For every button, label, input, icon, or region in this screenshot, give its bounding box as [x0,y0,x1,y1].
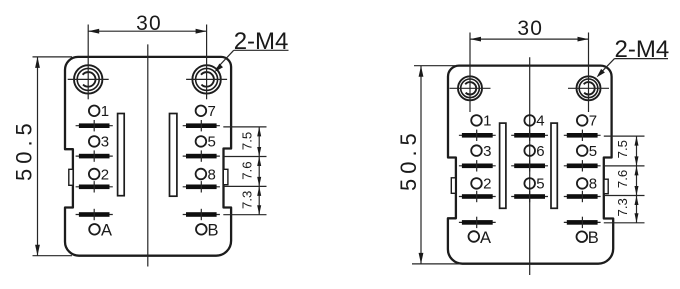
terminal bar B-C3-1 [564,130,601,141]
terminal circle A (letter) [89,222,112,240]
terminal bar B-C1-2 [459,160,496,171]
svg-text:30: 30 [517,17,543,40]
svg-text:7: 7 [589,113,597,130]
svg-text:7.5: 7.5 [240,132,255,150]
body outline B [448,66,613,264]
terminal circle 5 B-right [577,143,597,160]
terminal bar B-C3-3 [564,191,601,202]
terminal bar B-C2-2 [511,160,548,171]
terminal circle 8 B [577,176,597,193]
terminal bar A-L4 [76,209,113,220]
svg-text:5: 5 [208,134,216,151]
mounting hole A-right [186,25,227,100]
svg-text:B: B [208,222,219,240]
slot rectangle B1 [500,123,506,208]
terminal bar A-L3 [76,181,113,192]
terminal bar A-R2 [183,150,220,161]
pitch chain dims B (7.5/7.6/7.3) [604,136,645,223]
mounting hole A-left [68,25,109,100]
left clip A [69,169,73,185]
terminal circle 3 A [89,134,109,151]
terminal circle 1 B [471,113,491,130]
terminal bar A-R3 [183,181,220,192]
svg-text:7.5: 7.5 [615,140,630,158]
terminal circle 7 A [196,103,216,120]
terminal circle 5 A [196,134,216,151]
label 2-M4 A with leader [215,28,289,72]
mounting hole B-right [568,33,609,113]
svg-text:2: 2 [483,176,491,193]
terminal circle 2 A [89,166,109,183]
dimension 50.5 A [12,57,73,256]
svg-text:6: 6 [536,143,544,160]
svg-text:8: 8 [208,166,216,183]
svg-text:A: A [101,222,112,240]
label 2-M4 B with leader [597,36,670,77]
terminal circle 5 B-mid [524,176,544,193]
svg-text:A: A [480,229,491,247]
svg-text:7.3: 7.3 [615,198,630,216]
terminal circle 1 A [89,103,109,120]
terminal circle A B (letter) [469,229,492,247]
terminal bar B-C1-4 [459,217,496,228]
svg-text:3: 3 [483,143,491,160]
terminal bar B-C2-1 [511,130,548,141]
terminal bar A-L1 [76,120,113,131]
svg-text:7.6: 7.6 [240,161,255,179]
svg-text:5: 5 [589,143,597,160]
svg-text:8: 8 [589,176,597,193]
terminal circle 6 B [524,143,544,160]
svg-text:50.5: 50.5 [12,118,37,181]
center line A [147,44,149,266]
right clip A [223,169,228,184]
terminal circle 3 B [471,143,491,160]
right clip B [604,179,608,194]
terminal bar A-R4 [183,209,220,220]
svg-text:3: 3 [101,134,109,151]
mounting hole B-left [450,33,491,113]
slot rectangle A2 [170,114,177,197]
svg-text:7.6: 7.6 [615,170,630,188]
svg-text:B: B [588,229,599,247]
dimension 30 A [88,12,206,35]
terminal bar B-C1-3 [459,191,496,202]
terminal bar A-R1 [183,120,220,131]
svg-text:1: 1 [483,113,491,130]
terminal circle 8 A [196,166,216,183]
terminal circle 2 B [471,176,491,193]
body outline A [65,57,231,256]
terminal bar B-C3-4 [564,217,601,228]
svg-text:4: 4 [536,113,544,130]
terminal bar B-C2-3 [511,191,548,202]
dimension 50.5 B [396,66,460,264]
terminal circle B B (letter) [577,229,599,247]
terminal circle B (letter) [196,222,219,240]
center line B [529,57,531,275]
dimension 30 B [470,17,589,42]
terminal bar B-C3-2 [564,160,601,171]
terminal circle 4 B [524,113,544,130]
slot rectangle B2 [551,123,557,208]
svg-text:7: 7 [208,103,216,120]
left clip B [451,178,455,194]
svg-text:1: 1 [101,103,109,120]
svg-text:7.3: 7.3 [240,191,255,209]
pitch chain dims A (7.5/7.6/7.3) [223,127,266,215]
terminal bar B-C1-1 [459,130,496,141]
terminal circle 7 B [577,113,597,130]
svg-text:50.5: 50.5 [396,128,421,191]
svg-text:5: 5 [536,176,544,193]
slot rectangle A1 [118,114,125,196]
svg-text:2: 2 [101,166,109,183]
terminal bar A-L2 [76,150,113,161]
